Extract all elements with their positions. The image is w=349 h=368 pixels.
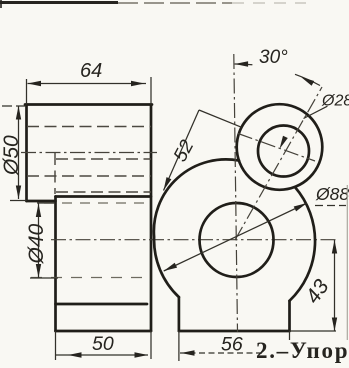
dimension Ø88 (diameter line across body): [164, 184, 349, 271]
boss axis centerline at 30deg: [235, 87, 322, 240]
hidden line y=159: [56, 158, 151, 160]
boss outer circle: [237, 104, 323, 190]
dimension 56 (bottom): [180, 334, 262, 356]
svg-text:Ø28: Ø28: [321, 93, 349, 110]
base outline: [179, 297, 290, 331]
svg-text:2.–Упор: 2.–Упор: [256, 338, 349, 363]
side view outline: lower rect (Ø40 section): [56, 105, 152, 332]
dimension Ø50: [0, 106, 27, 201]
svg-text:30°: 30°: [259, 47, 288, 68]
base bottom extension to 43 dim: [290, 330, 337, 332]
30 deg angle dimension: [235, 47, 320, 86]
axis centerline of Ø50 section: [21, 152, 157, 154]
dimension 64: [27, 60, 152, 105]
svg-text:64: 64: [80, 60, 102, 82]
dimension 52 (leader from boss centre to body arc): [164, 110, 242, 191]
svg-text:50: 50: [92, 333, 114, 355]
hidden vertical line x=55: [54, 153, 56, 194]
long horizontal centerline through both views: [51, 239, 336, 241]
base side extensions for 56 dim: [178, 331, 180, 361]
side view outline: top rect (Ø50 section): [25, 105, 152, 202]
hidden line y=192: [56, 191, 151, 193]
hidden line (bore) y=126.5: [27, 126, 151, 128]
svg-text:Ø88: Ø88: [315, 184, 349, 204]
svg-text:Ø40: Ø40: [25, 223, 48, 264]
central hole circle Ø40: [200, 203, 274, 277]
hidden line (bore) y=176: [27, 175, 151, 177]
vertical centerline: [234, 54, 238, 332]
dimension Ø28 leader: [280, 93, 349, 150]
svg-text:52: 52: [170, 136, 199, 165]
dimension 43 (right side): [301, 240, 337, 331]
svg-text:56: 56: [221, 334, 243, 356]
dimension 50 (bottom of side view): [56, 331, 152, 360]
main body circle Ø88 (two visible arcs): [154, 159, 315, 300]
svg-text:Ø50: Ø50: [0, 135, 23, 176]
boss cross centerline: [238, 134, 315, 162]
page fold line at right: [346, 185, 348, 340]
hidden line y=277.5: [31, 277, 151, 279]
hidden line y=203: [44, 202, 151, 204]
dimension Ø40: [25, 203, 58, 278]
boss hole circle Ø28: [258, 126, 309, 177]
page edge line at top: [0, 0, 306, 8]
